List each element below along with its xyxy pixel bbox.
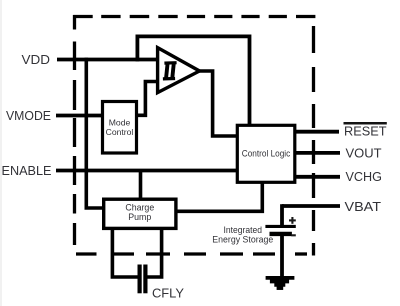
RESET overline	[344, 122, 387, 125]
wire VBAT pin	[282, 204, 340, 208]
block Control Logic	[237, 125, 294, 182]
ground symbol	[266, 278, 295, 288]
storage cell minus plate	[270, 232, 292, 236]
svg-text:VOUT: VOUT	[346, 146, 382, 160]
wire CFLY right lead	[147, 229, 162, 278]
block Charge Pump	[104, 199, 176, 228]
capacitor CFLY plate right	[143, 265, 147, 294]
wire Charge Pump to Control Logic	[177, 183, 263, 212]
svg-text:CFLY: CFLY	[152, 287, 185, 301]
svg-text:VMODE: VMODE	[6, 109, 51, 123]
svg-text:Control: Control	[106, 127, 134, 137]
IC boundary dashed top edge	[73, 15, 315, 18]
wire CFLY left lead	[112, 229, 138, 278]
svg-text:VDD: VDD	[22, 53, 51, 67]
wire top rail drop to Control Logic	[248, 35, 252, 125]
wire VDD vertical bus	[85, 58, 89, 208]
wire top rail	[136, 35, 250, 39]
wire storage cell to ground	[280, 236, 284, 278]
wire VDD pin	[57, 58, 158, 62]
IC boundary dashed left edge	[73, 15, 76, 245]
wire VCHG pin	[295, 175, 341, 179]
svg-text:RESET: RESET	[344, 125, 387, 139]
svg-text:ENABLE: ENABLE	[2, 164, 52, 178]
capacitor CFLY plate left	[138, 265, 142, 294]
wire VBAT to storage cell	[280, 204, 284, 226]
storage cell plus sign	[289, 217, 296, 224]
IC boundary dashed bottom edge	[76, 252, 307, 255]
wire VDD riser to top rail	[135, 36, 139, 61]
svg-text:VCHG: VCHG	[346, 170, 383, 184]
storage cell minus sign	[291, 234, 296, 236]
scan edge artifact	[0, 0, 2, 306]
comparator U1 triangle	[158, 48, 200, 93]
svg-text:VBAT: VBAT	[345, 200, 382, 214]
IC boundary dashed right edge	[312, 26, 315, 256]
wire ENABLE pin to Control Logic	[56, 169, 236, 173]
wire bus to Charge Pump	[85, 206, 103, 210]
wire ENABLE drop to Charge Pump	[139, 171, 143, 200]
wire comparator output to Control Logic	[199, 71, 237, 136]
svg-text:Pump: Pump	[128, 212, 151, 222]
block Mode Control	[103, 102, 137, 154]
svg-text:Integrated: Integrated	[224, 225, 263, 235]
wire Mode Control output	[138, 82, 157, 116]
wire RESET pin	[295, 130, 340, 134]
wire VMODE pin	[56, 114, 102, 118]
storage cell plus plate	[265, 225, 295, 228]
svg-text:Energy Storage: Energy Storage	[212, 234, 273, 244]
wire VOUT pin	[295, 151, 341, 155]
svg-text:Control Logic: Control Logic	[242, 148, 291, 158]
svg-text:Charge: Charge	[125, 202, 154, 212]
comparator hysteresis symbol	[163, 62, 177, 80]
